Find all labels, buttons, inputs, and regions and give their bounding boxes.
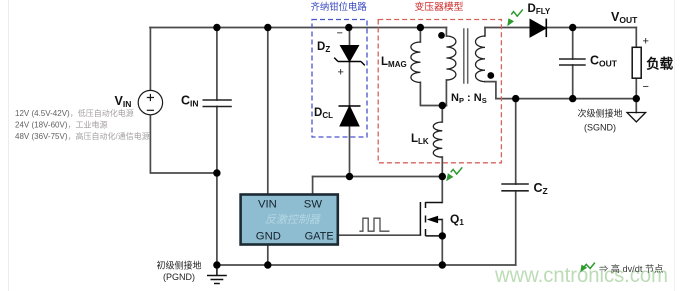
wire source drop to PGND rail [441,220,443,266]
transformer primary winding [446,36,456,80]
wire SGND rail [496,98,636,100]
wire controller GND pin [267,245,269,266]
wire secondary top drop [484,28,486,37]
voltage source VIN [138,90,162,114]
node PGND-GND [264,261,271,268]
svg-text:GND: GND [256,230,281,242]
Q1 body lead [438,219,443,221]
clamp diode DCL [339,106,361,126]
wire zener branch bottom [349,126,351,177]
svg-text:(PGND): (PGND) [163,272,195,282]
wire load bottom lead [635,78,637,98]
gate pulse waveform [359,218,389,231]
Q1 gate bar [419,202,421,235]
svg-text:初级侧接地: 初级侧接地 [156,260,201,271]
transformer model dashed box [378,20,501,163]
node rail-zener [345,24,352,31]
svg-text:(SGND): (SGND) [584,123,616,133]
inductor LLK [433,122,442,157]
node VIN-CIN [213,169,220,176]
wire top rail primary side [150,27,446,29]
svg-text:GATE: GATE [305,230,334,242]
node rail-CIN [213,24,220,31]
svg-text:齐纳钳位电路: 齐纳钳位电路 [311,1,368,12]
zener clamp dashed box [312,20,367,138]
primary polarity dot [438,32,445,39]
wire SW pin riser [312,177,314,195]
wire controller VIN pin riser [267,28,269,195]
svg-text:+: + [338,67,344,79]
node SW-drain [439,173,446,180]
wire PGND rail [217,264,516,266]
wire CZ bottom riser [515,191,517,265]
diode DFLY [530,19,546,37]
wire CIN branch upper [216,28,218,101]
wire COUT bottom lead [572,65,574,99]
legend arrow high dv/dt [584,263,595,269]
svg-text:次级侧接地: 次级侧接地 [577,108,622,119]
svg-text:VIN: VIN [258,198,277,210]
wire LMAG bottom to node [420,82,446,105]
wire zener branch top [349,28,351,46]
wire CIN branch lower [216,107,218,266]
capacitor CZ [501,184,529,191]
node SGND-secondary [512,95,519,102]
wire primary bottom drop [445,80,447,106]
Q1 source stub [426,235,443,237]
svg-text:−: − [643,81,649,93]
wire CZ top lead [515,99,517,184]
transformer core [464,28,468,83]
load resistor [632,47,641,78]
annotation arrow at SW node [451,167,463,174]
wire COUT top lead [572,28,574,60]
node rail-LMAG [417,24,424,31]
wire LLK bottom to SW node [441,157,443,177]
svg-text:⇒ 高 dv/dt 节点: ⇒ 高 dv/dt 节点 [599,263,663,274]
wire LMAG top tap [419,28,421,43]
node SGND-COUT [569,95,576,102]
svg-text:12V (4.5V-42V)，低压自动化电源: 12V (4.5V-42V)，低压自动化电源 [15,108,134,118]
annotation arrow at DFLY anode [511,10,523,17]
secondary polarity dot [487,72,494,79]
wire GATE to MOSFET gate [338,234,421,236]
svg-text:NP : NS: NP : NS [451,92,487,105]
wire primary top drop [445,28,447,37]
Q1 body arrow [428,216,438,222]
ground SGND symbol [627,113,646,122]
svg-text:负载: 负载 [646,55,673,71]
svg-text:24V (18V-60V)，工业电源: 24V (18V-60V)，工业电源 [15,120,107,130]
wire SW node horizontal [313,176,443,178]
wire top rail secondary side [485,27,636,29]
node zener-SW [346,173,353,180]
transformer secondary winding [475,36,485,82]
capacitor CIN [203,100,232,107]
Q1 drain stub [426,202,443,204]
node COUT-rail [569,24,576,31]
transistor Q1 [420,202,442,236]
wire VIN top riser [149,28,151,91]
inductor LMAG [411,42,421,82]
node PGND-CIN [213,261,220,268]
node rail-VINpin [264,24,271,31]
ground PGND symbol [207,265,227,284]
svg-text:48V (36V-75V)，高压自动化/通信电源: 48V (36V-75V)，高压自动化/通信电源 [15,131,150,141]
svg-text:−: − [337,28,343,40]
svg-text:变压器模型: 变压器模型 [415,0,464,13]
node SGND-load [633,95,640,102]
wire LLK top lead [441,106,443,123]
wire drain riser [441,177,443,203]
wire secondary bottom exit [485,82,496,99]
Q1 channel dashes [425,202,427,236]
wire VOUT load drop [635,28,637,48]
wire VIN bottom to CIN branch [150,115,217,173]
svg-text:SW: SW [304,198,323,210]
capacitor COUT [559,59,586,65]
node LMAG-primary-LLK [439,102,446,109]
node source-body [439,232,446,239]
svg-text:反激控制器: 反激控制器 [265,213,321,226]
node PGND-source [439,261,446,268]
wire zener branch middle [349,62,351,106]
zener diode DZ [334,46,365,66]
flyback controller U1 [241,195,338,245]
wire SGND stub [635,99,637,113]
svg-text:+: + [643,36,649,48]
